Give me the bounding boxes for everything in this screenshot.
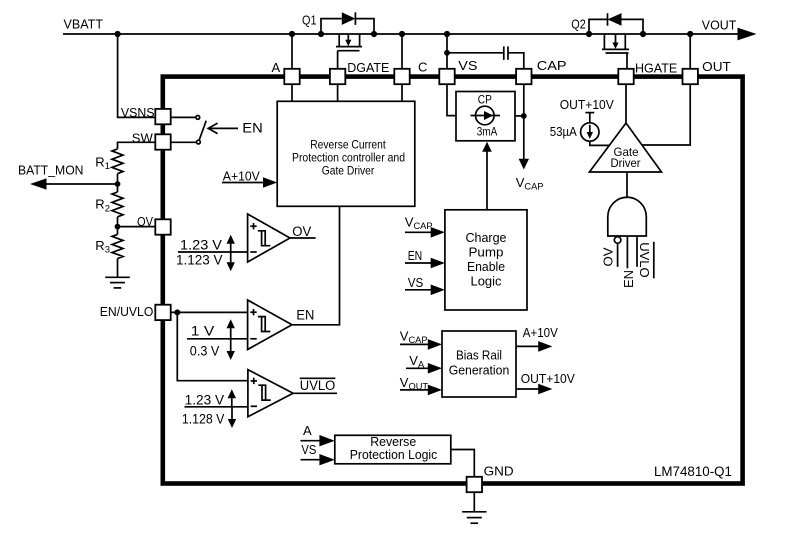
wire R2-R3 [117,217,119,235]
wire VSNS to switch [171,116,196,118]
node junction Q2 cathode [586,31,592,37]
svg-text:Generation: Generation [449,363,510,377]
wire EN input to AND [626,236,628,268]
switch EN contact lower [197,140,201,144]
wire VOUT input to bias rail [400,385,442,396]
block Reverse Current Protection controller and Gate Driver [277,101,415,206]
svg-text:HGATE: HGATE [635,61,678,76]
node OV falling arrow [227,252,235,271]
wire UVLO comparator output [293,392,337,394]
wire VS input to enable logic [405,285,445,296]
svg-text:Pump: Pump [469,246,504,260]
op-amp UVLO comparator [248,370,293,417]
wire HGATE to gate driver [625,84,627,123]
svg-text:EN: EN [621,270,636,288]
svg-text:C: C [418,60,427,75]
node junction VS [444,31,450,37]
wire C pin to controller [401,84,403,101]
svg-text:OUT: OUT [702,59,731,74]
svg-text:OV: OV [137,214,153,229]
wire CAP pin down with VCAP arrow [519,84,529,169]
wire A input to protection logic [301,435,335,446]
svg-text:Protection controller and: Protection controller and [292,151,405,165]
svg-text:VOUT: VOUT [702,18,737,33]
svg-text:Logic: Logic [471,275,502,289]
svg-text:LM74810-Q1: LM74810-Q1 [654,464,732,479]
svg-text:0.3 V: 0.3 V [190,344,220,359]
resistor R3 [112,234,123,258]
wire OUT pin riser [689,34,691,69]
node AND inverting bubble OV [614,237,621,244]
gate AND [608,197,647,236]
block Charge Pump Enable Logic [445,210,527,310]
wire EN input to enable logic [405,258,445,269]
pin SW [155,134,170,149]
svg-text:Q2: Q2 [571,17,586,32]
pin DGATE [330,69,345,84]
node junction OV tap [115,224,121,230]
resistor R2 [112,192,123,217]
pin VS [439,69,454,84]
svg-text:A: A [272,60,281,75]
svg-text:Bias Rail: Bias Rail [456,348,502,362]
svg-text:EN: EN [296,308,314,323]
svg-text:CAP: CAP [537,58,567,73]
op-amp Gate Driver triangle [589,123,661,172]
node junction OUT [687,31,693,37]
wire OV tap to OV pin [118,226,156,228]
transistor Q2 MOSFET [602,34,629,69]
pin GND [467,477,482,492]
wire VA input to bias rail [406,363,442,374]
wire A pin riser [291,34,293,69]
svg-text:A: A [303,423,312,438]
wire VCAP input to enable logic [405,227,445,238]
pin C [394,69,409,84]
wire A pin to controller [291,84,293,101]
wire gate driver to AND gate [626,172,628,198]
wire UVLO overline [300,377,336,379]
svg-text:Charge: Charge [466,231,507,245]
wire SW to resistor divider [118,142,156,149]
wire VCAP input to bias rail [400,339,442,350]
wire EN/UVLO to UVLO comparator [177,312,248,380]
op-amp OV comparator [248,214,290,262]
svg-text:VBATT: VBATT [64,16,104,31]
svg-text:1.123 V: 1.123 V [176,252,223,267]
wire UVLO input to AND [636,236,638,267]
svg-text:OUT+10V: OUT+10V [560,98,615,112]
svg-text:VS: VS [408,275,424,290]
svg-text:VSNS: VSNS [121,105,155,120]
resistor R1 [112,149,123,174]
wire VS input to protection logic [301,454,335,465]
wire OUT+10V output [516,384,552,395]
wire R3 to ground [117,259,119,278]
wire VS pin riser [446,34,448,69]
wire UVLO reference 1.23V [185,406,248,408]
node junction C [399,31,405,37]
pin OUT [683,69,698,84]
svg-text:Enable: Enable [467,260,505,274]
svg-text:Reverse Current: Reverse Current [310,138,386,152]
node EN falling arrow [227,339,235,360]
wire OV comparator output [290,237,316,239]
svg-text:1 V: 1 V [191,324,215,339]
svg-text:OV: OV [292,224,311,239]
node junction Q1 anode [318,31,324,37]
svg-text:Driver: Driver [611,156,641,170]
wire OUT pin to gate driver feedback [642,84,690,145]
wire OV input to AND [617,243,619,266]
IC boundary LM74810-Q1 [163,77,743,484]
node UVLO rising arrow [228,389,236,407]
svg-text:EN/UVLO: EN/UVLO [100,304,154,319]
wire VS pin to charge pump [447,84,456,115]
wire EN reference 1V [187,338,248,340]
svg-text:53µA: 53µA [550,125,578,139]
svg-text:DGATE: DGATE [347,60,389,75]
svg-text:UVLO: UVLO [637,242,652,278]
wire current source to gate driver [590,141,610,145]
wire R1-R2 [117,174,119,192]
node junction CAP charge pump [521,113,527,119]
svg-text:BATT_MON: BATT_MON [18,163,84,178]
svg-text:OUT+10V: OUT+10V [521,371,575,386]
wire EN comparator output to controller [292,206,340,324]
svg-text:UVLO: UVLO [300,378,336,393]
transistor Q2 diode [589,13,643,34]
node VOUT arrowhead [738,28,757,41]
pin VSNS [155,109,170,124]
wire EN/UVLO to EN comparator [171,311,248,313]
svg-text:Gate Driver: Gate Driver [322,164,375,178]
capacitor CAP-VS [447,46,524,69]
transistor Q1 diode [321,12,374,34]
wire protection logic to GND [451,450,475,477]
op-amp EN comparator [248,300,292,350]
svg-text:EN: EN [242,121,262,136]
ground GND [462,512,486,523]
switch EN contact upper [196,116,200,120]
wire charge pump enable to CP arrow [482,142,492,210]
block Reverse Protection Logic [335,435,451,464]
svg-text:1.128 V: 1.128 V [182,411,225,426]
wire OV reference 1.23V [178,251,248,253]
node OV rising arrow [227,235,235,252]
wire C pin riser [401,34,403,69]
node junction A [289,31,295,37]
transistor Q1 MOSFET [336,34,362,69]
node junction Q1 cathode [371,31,377,37]
block Bias Rail Generation [442,331,516,397]
ground divider [105,277,130,288]
wire A+10V input arrow [222,177,277,188]
svg-text:OV: OV [601,247,616,266]
svg-text:Q1: Q1 [302,12,317,27]
node EN rising arrow [227,319,235,339]
wire CP box to CAP wire [515,115,524,117]
node junction VBATT [115,31,121,37]
pin HGATE [618,69,633,84]
node junction Q2 anode [640,31,646,37]
node junction VS-cap branch [444,50,450,56]
wire VBATT top rail [63,33,739,35]
pin CAP [516,69,531,84]
svg-text:1.23 V: 1.23 V [185,393,225,408]
current source 53uA [581,113,599,142]
wire DGATE pin to controller [337,84,339,101]
svg-text:SW: SW [132,131,154,146]
block CP charge pump 3mA [456,92,515,141]
svg-text:1.23 V: 1.23 V [180,237,222,252]
svg-text:VS: VS [301,442,316,457]
svg-text:EN: EN [408,248,423,263]
node junction BATT_MON [115,181,121,187]
switch EN blade [199,121,206,140]
svg-text:A+10V: A+10V [223,169,261,183]
svg-text:GND: GND [484,464,514,479]
node junction EN/UVLO [174,309,180,315]
wire VBATT riser to VSNS [118,34,156,117]
pin A [284,69,299,84]
wire GND to ground [473,492,475,512]
svg-text:Protection Logic: Protection Logic [350,448,438,462]
svg-text:3mA: 3mA [477,126,498,138]
svg-text:CP: CP [478,95,492,107]
node UVLO falling arrow [228,407,236,428]
pin OV [155,219,170,234]
svg-text:VS: VS [458,58,478,73]
wire BATT_MON with arrowhead [30,178,118,189]
wire A+10V output [516,341,552,352]
svg-text:A+10V: A+10V [523,325,558,340]
wire SW to switch [171,141,197,143]
wire UVLO AND overline [653,242,655,278]
wire EN switch arrow [208,123,238,134]
pin EN/UVLO [155,305,170,320]
